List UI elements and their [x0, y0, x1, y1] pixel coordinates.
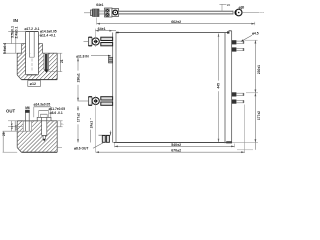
svg-text:290±1: 290±1 [77, 73, 81, 82]
svg-text:177±2: 177±2 [77, 113, 81, 122]
svg-text:⌀12: ⌀12 [30, 82, 36, 86]
svg-text:⌀4.5: ⌀4.5 [252, 32, 259, 36]
svg-text:29: 29 [2, 132, 6, 136]
svg-text:177±2: 177±2 [257, 111, 261, 120]
svg-text:⌀8.6 OUT: ⌀8.6 OUT [74, 147, 88, 151]
svg-text:⌀20: ⌀20 [239, 6, 245, 10]
svg-text:445: 445 [217, 83, 221, 89]
svg-text:64±1: 64±1 [98, 27, 106, 31]
svg-text:64±1: 64±1 [96, 3, 103, 7]
svg-text:21: 21 [60, 59, 64, 63]
svg-text:M6: M6 [25, 106, 30, 110]
svg-text:IN: IN [13, 18, 18, 24]
svg-text:662±2: 662±2 [171, 20, 181, 24]
svg-text:OUT: OUT [6, 109, 15, 114]
svg-text:14.5: 14.5 [14, 125, 18, 131]
svg-text:⌀8.6 -0.1: ⌀8.6 -0.1 [50, 111, 63, 115]
svg-text:540±2: 540±2 [171, 143, 181, 147]
svg-text:230±1: 230±1 [257, 65, 261, 74]
svg-text:⌀11.4 +0.1: ⌀11.4 +0.1 [40, 33, 56, 37]
svg-text:⌀14.3±0.05: ⌀14.3±0.05 [34, 103, 51, 107]
svg-text:24±1: 24±1 [89, 121, 93, 128]
svg-text:2.4±0.1: 2.4±0.1 [14, 27, 18, 39]
svg-text:670±2: 670±2 [171, 149, 181, 153]
svg-text:⌀17.2 -0.1: ⌀17.2 -0.1 [25, 27, 40, 31]
svg-text:5.5±0.4: 5.5±0.4 [3, 43, 7, 54]
svg-text:⌀11.8 IN: ⌀11.8 IN [76, 54, 89, 58]
svg-text:20: 20 [227, 3, 231, 7]
